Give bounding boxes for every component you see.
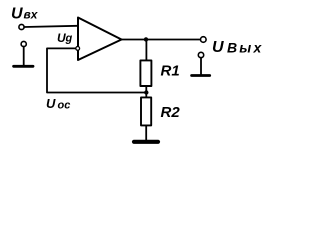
wire R1 top lead: [145, 41, 147, 60]
node output terminal: [201, 37, 207, 43]
wire R1-R2: [145, 86, 147, 98]
svg-text:R2: R2: [161, 104, 181, 121]
node right ground terminal: [198, 52, 203, 57]
resistor R2: [141, 97, 151, 125]
ground bottom: [134, 140, 158, 144]
wire output: [122, 39, 201, 41]
wire right ground lead: [200, 58, 202, 75]
resistor R1: [140, 60, 151, 86]
wire left ground lead: [23, 47, 25, 66]
wire feedback Uoc: [47, 48, 146, 92]
node inverting input circle: [76, 47, 80, 51]
svg-text:U: U: [11, 6, 23, 23]
svg-text:вх: вх: [24, 8, 39, 22]
node junction feedback/R1/R2: [144, 90, 148, 94]
node input terminal: [19, 24, 24, 29]
ground left: [14, 65, 33, 68]
node left ground terminal: [21, 41, 26, 46]
wire R2 bottom lead: [145, 126, 147, 140]
svg-text:Вых: Вых: [227, 40, 263, 56]
node junction output/R1: [144, 37, 148, 41]
svg-text:g: g: [65, 33, 73, 45]
svg-text:U: U: [212, 39, 224, 56]
svg-text:ос: ос: [58, 100, 71, 112]
op-amp U1: [78, 18, 122, 61]
svg-text:R1: R1: [161, 63, 180, 80]
ground right: [192, 74, 210, 77]
svg-text:U: U: [46, 96, 56, 111]
wire input to op-amp: [24, 26, 77, 27]
